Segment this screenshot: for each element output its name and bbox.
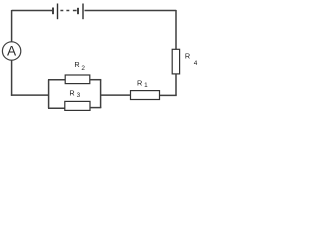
wire left rail lower <box>11 60 13 96</box>
ammeter A1 circle <box>2 42 20 60</box>
battery B1 cell2 long plate <box>82 4 84 20</box>
resistor R2 box <box>65 75 90 84</box>
wire right rail lower <box>175 74 177 96</box>
wire left rail upper <box>11 10 13 42</box>
wire parallel loop right edge <box>100 80 102 108</box>
battery B1 cell1 short plate <box>52 8 54 15</box>
battery dashed link dash2 <box>66 10 69 12</box>
wire R1 right stub <box>160 94 177 96</box>
svg-text:3: 3 <box>77 92 81 99</box>
svg-text:R: R <box>74 60 79 69</box>
wire R2 branch right stub <box>90 79 102 81</box>
wire parallel loop left edge <box>48 80 50 109</box>
wire right rail upper <box>175 10 177 50</box>
svg-text:1: 1 <box>144 82 148 89</box>
battery dashed link dash3 <box>73 10 77 12</box>
resistor R1 box <box>131 91 160 100</box>
battery B1 cell2 short plate <box>77 8 79 14</box>
resistor R3 box <box>65 101 90 110</box>
wire bottom-left feed <box>11 94 49 96</box>
wire middle (loop to R1) <box>101 94 131 96</box>
svg-text:4: 4 <box>194 60 198 67</box>
wire top rail right segment <box>85 10 177 12</box>
svg-text:R: R <box>137 79 142 88</box>
battery dashed link dash1 <box>60 10 63 12</box>
wire R3 branch right stub <box>90 107 101 109</box>
svg-text:2: 2 <box>81 65 85 72</box>
svg-text:R: R <box>69 88 74 97</box>
svg-text:R: R <box>185 51 190 60</box>
wire top rail left segment <box>12 10 52 12</box>
wire R2 branch left stub <box>48 79 65 81</box>
svg-text:A: A <box>7 44 17 59</box>
wire R3 branch left stub <box>48 107 65 109</box>
battery B1 cell1 long plate <box>57 4 59 20</box>
resistor R4 box <box>172 49 179 74</box>
